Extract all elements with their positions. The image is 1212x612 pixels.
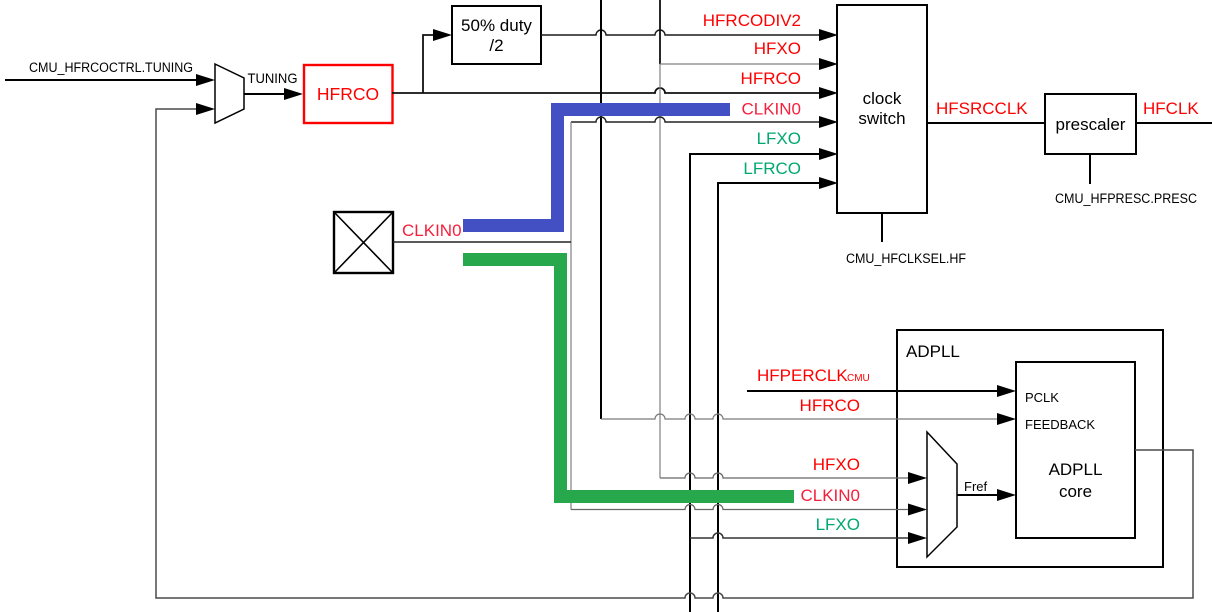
svg-text:CMU_HFPRESC.PRESC: CMU_HFPRESC.PRESC xyxy=(1055,191,1197,206)
svg-text:CMU_HFCLKSEL.HF: CMU_HFCLKSEL.HF xyxy=(846,251,966,266)
svg-text:LFRCO: LFRCO xyxy=(743,159,801,178)
svg-text:HFRCO: HFRCO xyxy=(741,69,801,88)
svg-text:TUNING: TUNING xyxy=(248,71,298,86)
wire HFXO into clock switch xyxy=(660,39,838,70)
svg-text:LFXO: LFXO xyxy=(757,129,801,148)
wire CLKIN0 pad to vertical xyxy=(393,221,571,242)
svg-text:CLKIN0: CLKIN0 xyxy=(800,486,860,505)
svg-text:HFCLK: HFCLK xyxy=(1143,99,1199,118)
box prescaler xyxy=(1045,94,1136,154)
highlight CLKIN0 green route xyxy=(463,260,794,497)
svg-text:FEEDBACK: FEEDBACK xyxy=(1025,417,1095,432)
svg-text:CMU: CMU xyxy=(847,373,870,384)
wire Fref mux to ADPLL core xyxy=(957,479,1016,501)
wire HFRCODIV2 from divider to clock switch xyxy=(541,11,838,41)
svg-text:HFXO: HFXO xyxy=(754,39,801,58)
wire CLKIN0 into ADPLL mux xyxy=(571,486,927,516)
wire LFXO into clock switch xyxy=(690,129,838,612)
svg-text:HFXO: HFXO xyxy=(813,455,860,474)
wire HFPERCLK_CMU into ADPLL PCLK xyxy=(747,366,1016,397)
svg-text:HFRCODIV2: HFRCODIV2 xyxy=(703,11,801,30)
wire HFRCO into ADPLL FEEDBACK xyxy=(601,396,1016,425)
wire HFRCO output to clock switch (net HFRCO) xyxy=(392,69,838,99)
svg-text:HFRCO: HFRCO xyxy=(317,84,379,104)
wire LFXO into ADPLL mux xyxy=(690,515,927,544)
mux TUNING selector xyxy=(215,64,244,123)
stub CMU_HFCLKSEL.HF under clock switch xyxy=(846,213,966,266)
wire ADPLL output feedback loop to TUNING mux xyxy=(156,103,1193,598)
svg-text:ADPLL: ADPLL xyxy=(906,342,960,361)
wire HFCLK prescaler output xyxy=(1136,99,1212,123)
pad CLKIN0 X-box xyxy=(334,212,393,273)
svg-text:prescaler: prescaler xyxy=(1056,115,1126,134)
svg-text:LFXO: LFXO xyxy=(816,515,860,534)
wire CMU_HFRCOCTRL.TUNING into mux xyxy=(5,60,215,86)
svg-text:50% duty: 50% duty xyxy=(461,16,532,35)
svg-text:switch: switch xyxy=(858,109,905,128)
wire vertical HFRCO net (to feedback) xyxy=(600,0,602,419)
svg-text:Fref: Fref xyxy=(964,479,988,494)
stub CMU_HFPRESC.PRESC under prescaler xyxy=(1055,154,1197,206)
wire tap up into 50% duty divider xyxy=(423,29,452,93)
svg-text:HFRCO: HFRCO xyxy=(800,396,860,415)
highlight CLKIN0 blue route xyxy=(463,110,730,226)
svg-text:CLKIN0: CLKIN0 xyxy=(402,221,462,240)
svg-text:core: core xyxy=(1059,482,1092,501)
svg-text:ADPLL: ADPLL xyxy=(1049,460,1103,479)
svg-text:CMU_HFRCOCTRL.TUNING: CMU_HFRCOCTRL.TUNING xyxy=(29,60,193,75)
svg-text:clock: clock xyxy=(863,89,902,108)
svg-text:HFSRCCLK: HFSRCCLK xyxy=(936,99,1028,118)
wire HFXO into ADPLL mux xyxy=(660,455,927,484)
svg-text:HFPERCLK: HFPERCLK xyxy=(757,366,848,385)
svg-text:PCLK: PCLK xyxy=(1025,390,1059,405)
svg-text:/2: /2 xyxy=(489,36,503,55)
wire vertical HFXO net xyxy=(659,0,661,478)
wire HFSRCCLK clock switch to prescaler xyxy=(927,99,1045,123)
box HFRCO oscillator xyxy=(304,65,393,123)
mux ADPLL Fref selector xyxy=(927,432,957,557)
box ADPLL outer xyxy=(897,330,1163,567)
wire LFRCO into clock switch xyxy=(718,159,838,612)
box ADPLL core xyxy=(1016,362,1135,538)
wire TUNING mux output to HFRCO xyxy=(244,71,303,100)
svg-text:CLKIN0: CLKIN0 xyxy=(741,100,801,119)
wire vertical CLKIN0 net xyxy=(570,122,572,510)
box clock switch xyxy=(837,5,927,213)
wire CLKIN0 into clock switch xyxy=(571,100,838,129)
box 50% duty /2 divider xyxy=(452,6,541,64)
